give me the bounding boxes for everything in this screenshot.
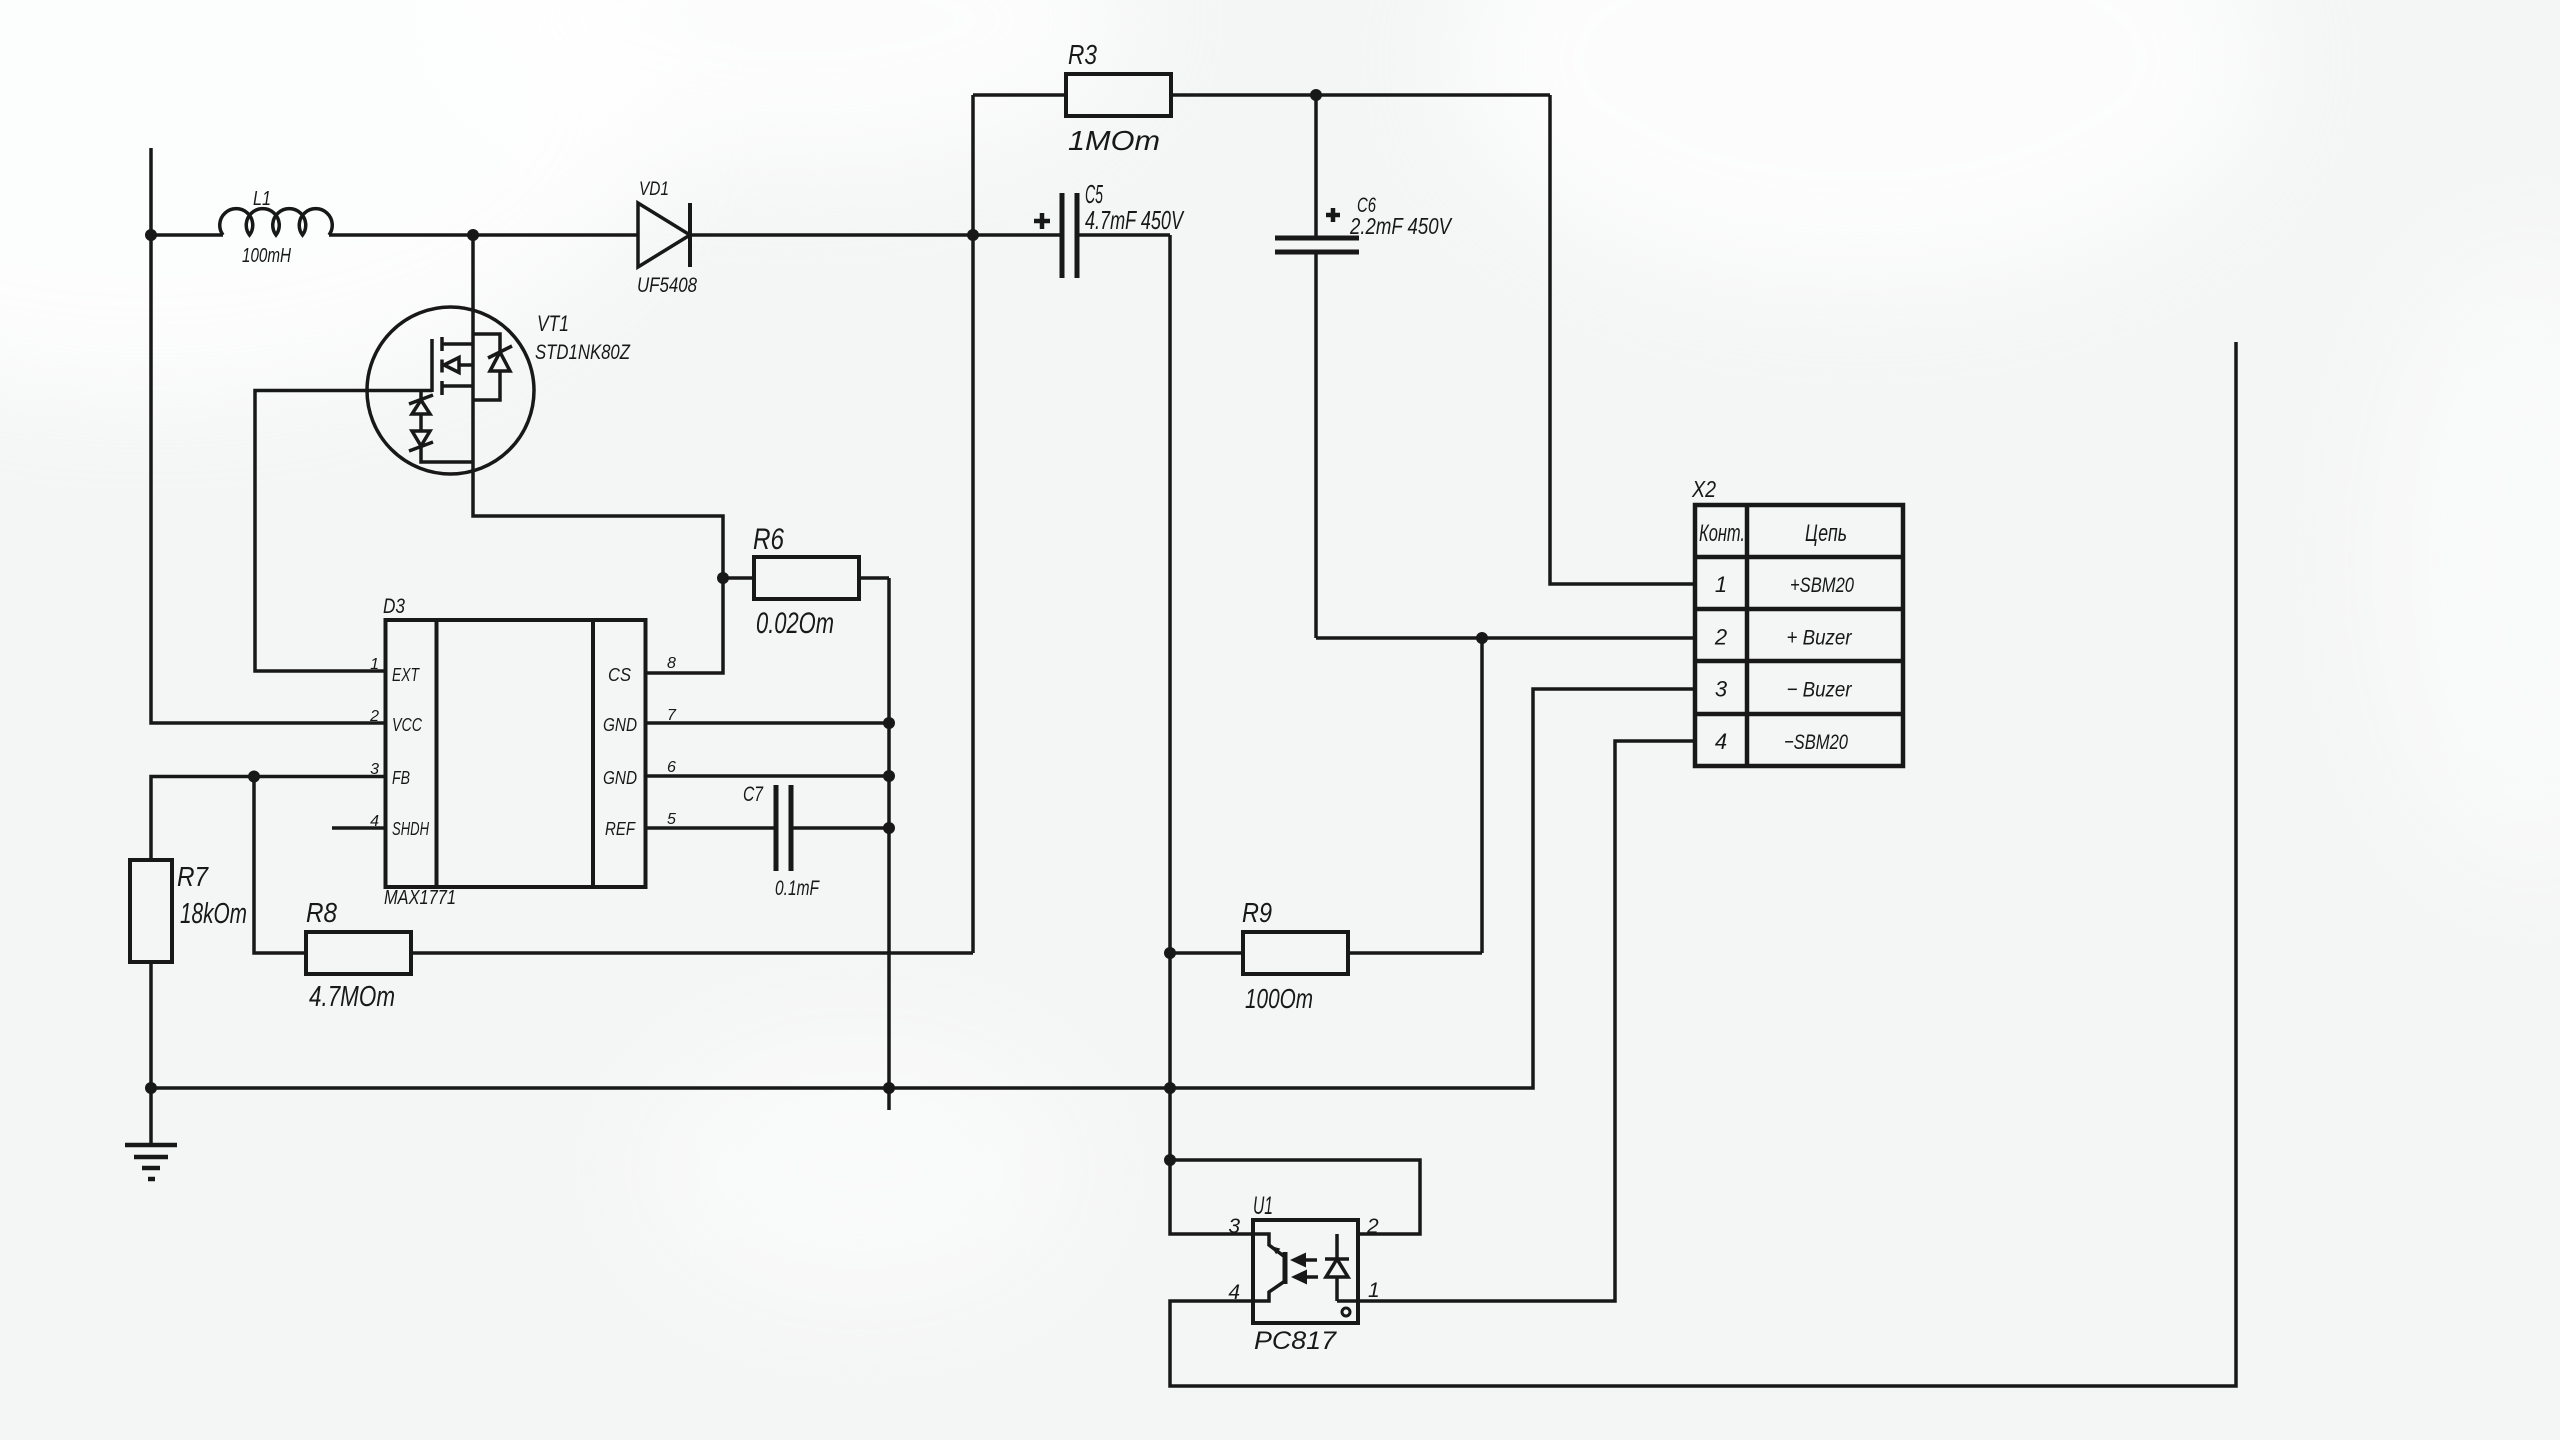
svg-text:2: 2 [369,708,379,725]
svg-text:2: 2 [1366,1215,1379,1238]
U1 light arrow lower [1307,1275,1318,1279]
junction L1/VT1 drain node [467,229,479,241]
connector X2 table [1695,505,1903,766]
wire: L1 to VD1 anode [329,233,638,237]
resistor R6 [723,576,754,580]
svg-text:D3: D3 [383,595,405,618]
svg-text:VT1: VT1 [537,311,569,336]
svg-text:1MOm: 1MOm [1068,125,1160,156]
polarity plus C5 [1034,213,1050,229]
svg-text:6: 6 [667,759,676,776]
resistor R3 [973,93,1066,97]
svg-text:0.1mF: 0.1mF [775,876,820,900]
svg-text:5: 5 [667,811,676,828]
transistor VT1 channel dashes [440,337,444,395]
svg-text:GND: GND [603,768,637,788]
svg-text:1: 1 [370,656,379,673]
junction FB/R8 branch [248,771,260,783]
wire: VT1 gate to EXT pin 1 [255,391,432,672]
transistor VT1 envelope circle [367,307,534,474]
svg-text:R8: R8 [306,897,337,928]
svg-text:VCC: VCC [392,715,423,735]
transistor VT1 drain bar [442,342,473,346]
svg-text:4.7MOm: 4.7MOm [309,981,395,1013]
wire: FB branch down to R8 [254,777,306,954]
svg-text:18kOm: 18kOm [180,898,247,930]
transistor VT1 body zener branch [473,334,500,400]
capacitor C6 [1314,95,1318,238]
capacitor C5 [973,233,1062,237]
wire: REF pin 5 to C7 [646,826,777,830]
wire: C5 node vertical (R3 left to R8 right) [971,95,975,953]
junction U1 collector loop [1164,1154,1176,1166]
junction GND6/bus [883,770,895,782]
U1 phototransistor collector [1253,1234,1285,1257]
svg-text:UF5408: UF5408 [637,274,697,297]
junction GND7/bus [883,717,895,729]
resistor R8 [306,932,411,974]
junction VT1 source/R6/CS node [717,572,729,584]
svg-text:L1: L1 [253,188,271,210]
svg-text:+SBM20: +SBM20 [1790,573,1854,597]
wire: left input vertical down to VCC pin 2 [151,148,386,723]
wire: U1 pin 4 to bottom rail and right riser [1170,342,2236,1386]
diode VD1 [638,203,690,267]
svg-text:MAX1771: MAX1771 [384,887,456,909]
wire: C6 to X2 pin 2 [1316,636,1695,640]
svg-text:− Buzer: − Buzer [1787,678,1853,702]
svg-text:X2: X2 [1691,476,1716,502]
svg-text:4: 4 [1715,729,1727,754]
wire: U1 collector loop to pin 2 [1170,1160,1420,1234]
wire: R3 net down to X2 pin 1 [1550,95,1695,584]
svg-text:8: 8 [667,655,676,672]
svg-text:U1: U1 [1253,1192,1273,1220]
inductor L1 [220,209,333,235]
junction ground/C5 vertical [1164,1082,1176,1094]
wire: SHDH pin 4 stub [332,826,386,830]
ground symbol [149,1088,153,1145]
wire: GND pin 7 to bus [646,721,890,725]
U1 phototransistor emitter [1253,1281,1285,1301]
svg-text:3: 3 [1228,1215,1240,1238]
wire: VD1 cathode to C5 node [690,233,973,237]
svg-text:Конт.: Конт. [1699,520,1745,547]
junction C5 vertical/R9 [1164,947,1176,959]
svg-text:100mH: 100mH [242,245,291,267]
optocoupler U1 body [1253,1220,1358,1323]
capacitor C7 [776,785,791,871]
junction REF/C7/bus [883,822,895,834]
resistor R7 [130,860,172,962]
transistor VT1 source bar [442,384,473,388]
svg-text:100Om: 100Om [1245,983,1313,1014]
wire: GND/REF bus vertical [887,578,891,1110]
wire: main top rail from input node to L1 [151,233,223,237]
svg-text:+ Buzer: + Buzer [1787,626,1853,650]
svg-text:STD1NK80Z: STD1NK80Z [535,341,631,364]
transistor VT1 gate bar [430,339,434,392]
svg-text:PC817: PC817 [1254,1327,1337,1355]
svg-text:REF: REF [605,819,636,839]
U1 LED [1337,1234,1358,1301]
svg-text:−SBM20: −SBM20 [1784,730,1848,754]
svg-text:4.7mF 450V: 4.7mF 450V [1085,205,1185,235]
svg-text:3: 3 [1715,677,1728,702]
svg-text:0.02Om: 0.02Om [756,607,834,640]
wire: C5 right vertical down to U1 pin 3 [1170,235,1253,1234]
svg-text:R3: R3 [1068,39,1097,70]
IC D3 MAX1771 body [386,620,646,887]
svg-text:R7: R7 [177,861,209,892]
junction ground/R7 [145,1082,157,1094]
ground rail [151,689,1695,1088]
svg-text:2: 2 [1714,625,1727,650]
svg-text:FB: FB [392,768,410,788]
svg-text:R9: R9 [1242,897,1272,928]
wire: FB pin 3 to R7 top [151,777,386,861]
transistor VT1 body connection with arrow [459,363,473,367]
polarity plus C6 [1326,208,1340,222]
transistor VT1 gate protection zeners [421,391,473,463]
svg-text:SHDH: SHDH [392,819,430,839]
svg-text:2.2mF 450V: 2.2mF 450V [1349,213,1453,239]
svg-text:CS: CS [608,665,631,685]
svg-text:EXT: EXT [392,665,421,685]
resistor R9 [1170,951,1243,955]
wire: VT1 drain-source vertical, source lead to CS pin 8 [473,235,723,673]
U1 pin1 indicator dot [1342,1308,1350,1316]
svg-text:4: 4 [1228,1281,1240,1304]
svg-text:Цепь: Цепь [1805,520,1847,547]
junction ground/bus [883,1082,895,1094]
svg-text:GND: GND [603,715,637,735]
svg-text:C7: C7 [743,782,764,806]
U1 phototransistor arrow [1271,1246,1280,1254]
junction input/L1 node [145,229,157,241]
wire: X2 pin 4 down to U1 pin 1 [1358,741,1695,1301]
junction R3/C6 [1310,89,1322,101]
svg-text:R6: R6 [753,523,784,556]
U1 light arrow upper [1306,1258,1317,1262]
wire: GND pin 6 to bus [646,774,890,778]
svg-text:VD1: VD1 [639,178,669,200]
svg-text:1: 1 [1368,1279,1380,1302]
junction VD1/C5/R3 node [967,229,979,241]
junction R9 riser on pin2 wire [1476,632,1488,644]
svg-text:1: 1 [1715,572,1727,597]
U1 phototransistor bar [1283,1252,1288,1284]
